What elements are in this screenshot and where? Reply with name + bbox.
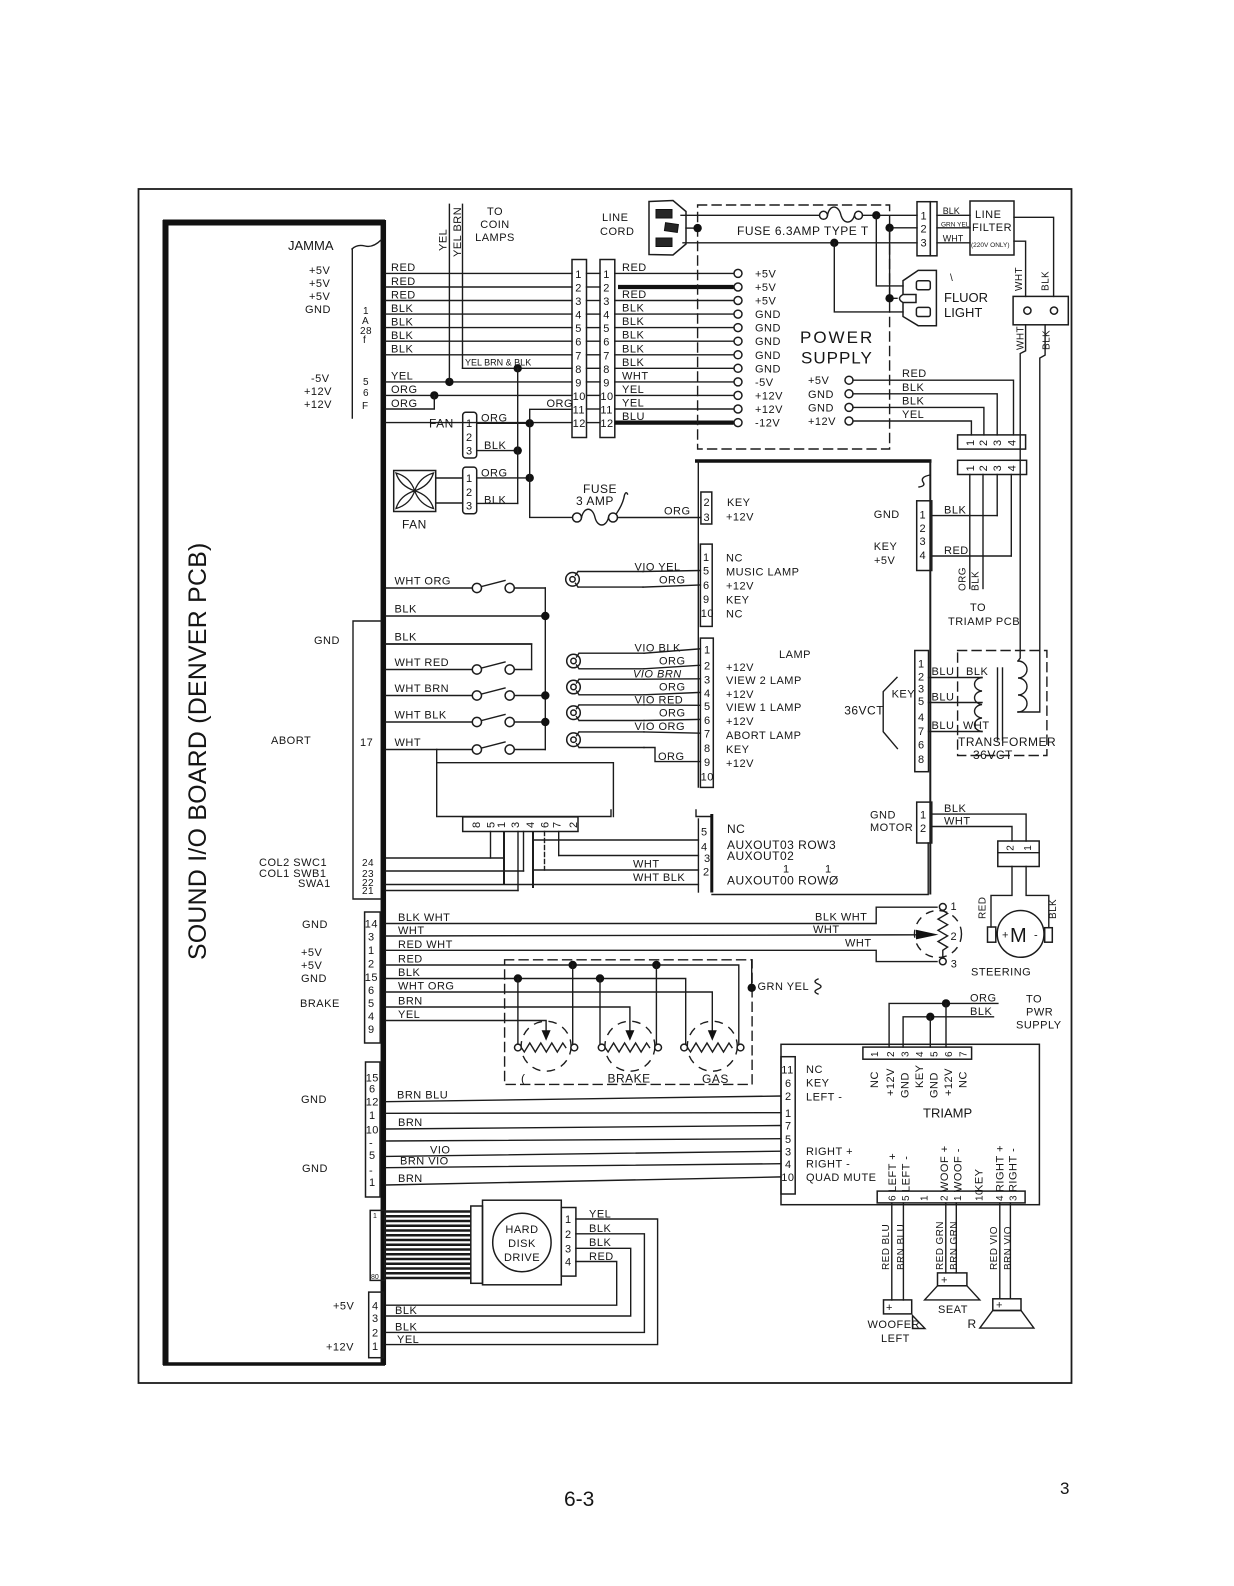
wire fanA pin3	[477, 450, 518, 452]
switch WHT BRN	[472, 691, 481, 700]
svg-text:BLK: BLK	[395, 632, 417, 644]
svg-text:NC: NC	[806, 1064, 823, 1076]
svg-text:+5V: +5V	[755, 282, 777, 294]
svg-text:GND: GND	[870, 810, 896, 822]
svg-text:LEFT -: LEFT -	[900, 1156, 912, 1192]
brake/gas dashed box	[505, 960, 752, 1085]
svg-text:+5V: +5V	[755, 268, 777, 280]
svg-text:8: 8	[471, 821, 483, 828]
wire VIO BLK to pin1	[644, 649, 700, 653]
wire pin3 WHT	[937, 242, 970, 244]
wire audio nc	[386, 1112, 781, 1115]
svg-text:9: 9	[703, 594, 710, 606]
connector HDD power 4-pin	[561, 1208, 576, 1277]
svg-text:2: 2	[372, 1328, 379, 1340]
wire audio BRN	[386, 1126, 781, 1130]
fuse 6.3AMP F1	[820, 211, 828, 219]
svg-text:FLUOR: FLUOR	[944, 290, 988, 305]
wire RED branch pot2	[655, 965, 657, 1044]
svg-text:+5V: +5V	[309, 265, 331, 277]
svg-text:4: 4	[1006, 439, 1018, 446]
svg-text:YEL: YEL	[397, 1334, 419, 1346]
switch WHT RED	[472, 665, 481, 674]
svg-text:M: M	[1010, 925, 1027, 947]
svg-text:RED: RED	[902, 368, 927, 380]
svg-text:WHT: WHT	[622, 370, 649, 382]
svg-text:VIO BLK: VIO BLK	[635, 643, 681, 655]
svg-text:LAMP: LAMP	[779, 649, 811, 661]
wire vertical from row8 junction	[517, 368, 519, 503]
svg-text:4: 4	[701, 842, 708, 854]
power supply dashed box	[698, 205, 890, 449]
svg-text:VIEW 1 LAMP: VIEW 1 LAMP	[726, 702, 802, 714]
connector P GND/KEY/+5V	[917, 501, 932, 571]
svg-text:1: 1	[870, 1051, 881, 1057]
svg-text:5: 5	[603, 323, 610, 335]
wire plug middle prong	[686, 227, 698, 229]
svg-text:3: 3	[992, 465, 1004, 472]
svg-text:GND: GND	[302, 919, 328, 931]
svg-text:2: 2	[568, 821, 580, 828]
svg-text:2: 2	[575, 283, 582, 295]
wire BLK branch pot2	[599, 979, 601, 1045]
connector GND/MOTOR	[917, 802, 932, 843]
speaker SEAT	[938, 1273, 967, 1286]
svg-text:1: 1	[369, 1110, 376, 1122]
svg-text:KEY: KEY	[974, 1168, 986, 1192]
svg-text:7: 7	[918, 726, 925, 738]
svg-text:VIEW 2 LAMP: VIEW 2 LAMP	[726, 675, 802, 687]
wire JAMMA row 1	[386, 272, 572, 274]
svg-text:ORG: ORG	[391, 398, 418, 410]
svg-text:1: 1	[965, 465, 977, 472]
wire line filter BLK to terminal	[1014, 217, 1054, 296]
lamp assembly view1	[567, 680, 581, 694]
svg-text:3: 3	[921, 238, 928, 250]
svg-text:QUAD MUTE: QUAD MUTE	[806, 1172, 877, 1184]
svg-text:2: 2	[565, 1229, 572, 1241]
switch WHT BLK	[472, 717, 481, 726]
svg-text:SWA1: SWA1	[298, 878, 331, 890]
wire audio BRN BLU	[386, 1096, 781, 1102]
svg-text:24: 24	[362, 858, 374, 869]
svg-text:7: 7	[785, 1121, 792, 1133]
svg-text:ABORT LAMP: ABORT LAMP	[726, 730, 802, 742]
wire BLK row3 to WHT RED switch	[386, 644, 532, 670]
wire row 8 YEL BRN & BLK	[463, 367, 573, 369]
svg-text:NC: NC	[869, 1071, 881, 1088]
connector 36VCT 8-pin	[915, 651, 929, 772]
svg-text:BRN BLU: BRN BLU	[397, 1090, 448, 1102]
wire BLK	[386, 979, 686, 1045]
svg-text:-12V: -12V	[755, 418, 780, 430]
wire pair RED VIO/BRN VIO	[999, 1203, 1001, 1299]
svg-text:2: 2	[368, 959, 375, 971]
svg-text:+12V: +12V	[726, 512, 754, 524]
svg-text:GND: GND	[808, 402, 834, 414]
junction	[526, 474, 534, 482]
wire +12V row 10	[386, 394, 572, 396]
svg-text:GND: GND	[755, 363, 781, 375]
junction BLK row	[541, 612, 549, 620]
svg-text:1: 1	[603, 269, 610, 281]
svg-text:KEY: KEY	[806, 1078, 830, 1090]
svg-text:LIGHT: LIGHT	[944, 305, 982, 320]
svg-text:10: 10	[600, 391, 613, 403]
svg-text:6: 6	[363, 388, 369, 399]
svg-text:f: f	[363, 335, 366, 346]
svg-text:RED VIO: RED VIO	[989, 1226, 1000, 1270]
svg-text:2: 2	[940, 1195, 951, 1201]
svg-text:RED GRN: RED GRN	[935, 1221, 946, 1270]
transformer primary coil	[1018, 661, 1027, 712]
svg-text:WHT: WHT	[1014, 267, 1025, 291]
svg-text:ORG: ORG	[664, 506, 691, 518]
transformer secondary coil	[975, 678, 982, 732]
wire lower conn pin2 BLK down	[982, 475, 984, 589]
wire JAMMA row 6	[386, 340, 572, 342]
wire header pin5 down	[490, 832, 492, 859]
svg-text:6: 6	[603, 337, 610, 349]
svg-text:AUXOUT02: AUXOUT02	[727, 849, 794, 863]
svg-text:FILTER: FILTER	[972, 222, 1012, 234]
svg-text:VIO BRN: VIO BRN	[633, 669, 682, 681]
svg-text:BLK: BLK	[944, 803, 966, 815]
svg-text:(220V ONLY): (220V ONLY)	[971, 242, 1010, 249]
svg-text:12: 12	[366, 1097, 379, 1109]
wire VIO ORG to pin7	[644, 732, 700, 733]
wire RED pin4	[932, 555, 1012, 557]
connector FAN B 3-pin	[463, 467, 477, 514]
svg-text:RED: RED	[398, 954, 423, 966]
svg-text:GND: GND	[305, 304, 331, 316]
brace 36VCT	[883, 677, 897, 748]
switch WHT	[472, 745, 481, 754]
svg-text:BLK: BLK	[391, 316, 413, 328]
bus squiggle mark	[919, 475, 930, 487]
svg-text:ORG: ORG	[547, 398, 574, 410]
wire main section top edge (thick)	[695, 459, 932, 463]
connector TRIAMP top header	[863, 1047, 972, 1059]
svg-text:+12V: +12V	[885, 1068, 897, 1096]
connector 4-pin upper	[958, 435, 1026, 449]
svg-text:3: 3	[901, 1051, 912, 1057]
svg-text:YEL: YEL	[398, 1009, 420, 1021]
svg-text:NC: NC	[726, 609, 743, 621]
wire ORG to pin2	[644, 665, 700, 669]
svg-text:MUSIC LAMP: MUSIC LAMP	[726, 567, 799, 579]
svg-text:ORG: ORG	[659, 656, 686, 668]
svg-text:1: 1	[496, 821, 508, 828]
wire switch row WHT	[386, 749, 472, 751]
wire switch row WHT ORG	[386, 587, 472, 589]
JAMMA bracket squiggle	[352, 240, 381, 249]
svg-text:BLU: BLU	[932, 666, 955, 678]
wire vertical YEL	[448, 204, 450, 382]
svg-text:36VCT: 36VCT	[844, 704, 884, 718]
svg-text:WHT: WHT	[395, 737, 422, 749]
wire pin2 GRN YEL	[937, 227, 970, 229]
svg-text:5: 5	[918, 696, 925, 708]
wire pair RED BLU/BRN BLU	[891, 1203, 893, 1300]
svg-text:YEL: YEL	[391, 371, 413, 383]
svg-text:BLK: BLK	[622, 357, 644, 369]
wire ORG to pin6	[644, 719, 700, 720]
svg-text:6: 6	[888, 1195, 899, 1201]
wire ORG to pin6	[643, 585, 700, 587]
svg-text:WOOF -: WOOF -	[952, 1148, 964, 1192]
svg-text:1: 1	[951, 901, 958, 913]
svg-text:TO: TO	[1026, 994, 1042, 1006]
svg-text:BLK: BLK	[971, 571, 982, 591]
svg-text:+12V: +12V	[304, 386, 332, 398]
wire COL1 SWB1 pin23	[386, 870, 524, 872]
lamp assembly abort	[567, 706, 581, 720]
svg-text:1: 1	[372, 1341, 379, 1353]
svg-text:6: 6	[944, 1051, 955, 1057]
wire switch row WHT BRN	[386, 695, 472, 697]
connector box power 4-pin	[369, 1292, 384, 1358]
svg-text:2: 2	[978, 465, 990, 472]
svg-text:3: 3	[510, 821, 522, 828]
svg-text:7: 7	[704, 729, 711, 741]
svg-text:BLK: BLK	[970, 1006, 992, 1018]
connector J1 12-pin	[572, 260, 587, 438]
wire BLU WHT pin7	[929, 731, 983, 733]
svg-text:11: 11	[781, 1064, 793, 1076]
svg-text:+: +	[996, 1300, 1003, 1312]
svg-text:-5V: -5V	[755, 377, 774, 389]
wire ORG to pin4	[644, 692, 700, 694]
svg-text:3: 3	[1008, 1195, 1019, 1201]
svg-text:ORG: ORG	[658, 751, 685, 763]
connector KEY/+12V 2-pin	[701, 492, 712, 524]
svg-text:6: 6	[575, 337, 582, 349]
svg-text:6: 6	[704, 715, 711, 727]
wire fuse to KEY connector	[618, 517, 701, 519]
svg-text:YEL BRN & BLK: YEL BRN & BLK	[465, 357, 531, 367]
svg-text:RIGHT +: RIGHT +	[806, 1146, 853, 1158]
svg-text:LINE: LINE	[975, 209, 1001, 221]
wire SWA1 pin22 to AUXOUT (thick)	[386, 884, 698, 886]
svg-text:BLU: BLU	[932, 692, 955, 704]
svg-text:TRANSFORMER: TRANSFORMER	[958, 735, 1056, 749]
svg-text:ORG: ORG	[659, 575, 686, 587]
svg-text:11: 11	[573, 405, 585, 417]
svg-text:3: 3	[704, 853, 711, 865]
junction	[526, 419, 534, 427]
svg-text:BLK: BLK	[391, 330, 413, 342]
svg-text:9: 9	[603, 377, 610, 389]
ribbon end bar	[471, 1206, 483, 1283]
svg-text:5: 5	[930, 1051, 941, 1057]
svg-text:RIGHT -: RIGHT -	[806, 1159, 850, 1171]
svg-text:5: 5	[363, 377, 369, 388]
wire pin21	[386, 890, 518, 892]
wire header pin6 down	[544, 832, 546, 871]
svg-text:+12V: +12V	[726, 662, 754, 674]
connector FAN A 3-pin	[463, 412, 477, 458]
wire +12V row 11 stub	[386, 395, 434, 409]
svg-text:12: 12	[600, 418, 613, 430]
wire header top rail	[438, 810, 611, 817]
wire BLK terminal down to transformer	[1018, 325, 1045, 712]
svg-text:5: 5	[369, 1150, 376, 1162]
svg-text:KEY: KEY	[727, 497, 751, 509]
wire RED	[386, 965, 739, 1044]
svg-text:RED: RED	[622, 262, 647, 274]
svg-text:BLK WHT: BLK WHT	[398, 912, 450, 924]
svg-text:9: 9	[368, 1024, 375, 1036]
svg-text:BLK: BLK	[589, 1223, 611, 1235]
svg-text:10: 10	[701, 608, 714, 620]
svg-text:2: 2	[466, 432, 473, 444]
wire ORG to pin9 (stepped)	[644, 748, 700, 762]
svg-text:(: (	[521, 1072, 526, 1086]
fluor prong top	[916, 281, 930, 290]
svg-text:SEAT: SEAT	[938, 1304, 968, 1316]
svg-text:+12V: +12V	[943, 1068, 955, 1096]
wire main vertical bus	[929, 461, 931, 895]
svg-text:1: 1	[918, 659, 925, 671]
svg-text:3: 3	[785, 1146, 792, 1158]
terminal block mains	[1013, 296, 1068, 324]
svg-text:\: \	[950, 273, 953, 284]
wire BLK triamp power	[903, 1017, 993, 1047]
svg-text:GND: GND	[755, 323, 781, 335]
svg-text:GND: GND	[808, 389, 834, 401]
wire BLK pin1	[932, 515, 997, 517]
svg-text:WHT RED: WHT RED	[395, 657, 450, 669]
svg-text:GND: GND	[301, 973, 327, 985]
svg-text:FAN: FAN	[429, 417, 454, 431]
wire switch row WHT RED	[386, 669, 472, 671]
svg-text:10: 10	[366, 1124, 379, 1136]
svg-text:WHT: WHT	[813, 924, 840, 936]
transformer dashed box	[958, 651, 1047, 756]
svg-text:7: 7	[959, 1051, 970, 1057]
svg-text:BLK: BLK	[1041, 271, 1052, 291]
wire lower conn pin4 to RED	[1010, 475, 1012, 557]
svg-text:KEY: KEY	[892, 688, 916, 700]
wire bottom node to fluor bottom	[834, 243, 903, 312]
connector audio 9-pin	[366, 1062, 381, 1197]
junction WHT BLK	[541, 718, 549, 726]
svg-text:10: 10	[573, 391, 586, 403]
svg-text:ORG: ORG	[958, 567, 969, 591]
svg-text:BLK: BLK	[391, 303, 413, 315]
svg-text:LEFT: LEFT	[881, 1333, 910, 1345]
svg-text:10: 10	[781, 1172, 794, 1184]
svg-text:4: 4	[920, 550, 927, 562]
svg-text:3: 3	[565, 1244, 572, 1256]
svg-text:+5V: +5V	[301, 947, 323, 959]
svg-text:1: 1	[953, 1195, 964, 1201]
wire JAMMA row 12	[386, 422, 572, 424]
svg-text:6-3: 6-3	[564, 1488, 594, 1511]
svg-text:4: 4	[525, 821, 537, 828]
svg-text:WHT ORG: WHT ORG	[395, 576, 451, 588]
svg-text:+12V: +12V	[755, 404, 783, 416]
wire fanA pin1	[477, 422, 530, 424]
svg-text:4: 4	[704, 688, 711, 700]
wire -5V row 9	[386, 381, 572, 383]
connector 4-pin lower	[958, 460, 1027, 474]
svg-text:GND: GND	[755, 336, 781, 348]
wire header pin3 down	[523, 832, 525, 872]
svg-text:3: 3	[575, 296, 582, 308]
svg-text:+5V: +5V	[309, 291, 331, 303]
svg-text:CORD: CORD	[600, 226, 634, 238]
potentiometer steering	[915, 911, 962, 958]
svg-text:TRIAMP PCB: TRIAMP PCB	[948, 616, 1020, 628]
svg-text:1: 1	[466, 473, 473, 485]
wire switch output bus	[544, 588, 546, 750]
svg-text:BRN GRN: BRN GRN	[949, 1221, 960, 1270]
svg-text:6: 6	[918, 739, 925, 751]
svg-text:1: 1	[368, 945, 375, 957]
wire WHT motor	[932, 827, 1012, 842]
svg-text:3: 3	[466, 501, 473, 513]
svg-text:RIGHT -: RIGHT -	[1008, 1148, 1020, 1192]
svg-text:2: 2	[920, 823, 927, 835]
svg-text:3: 3	[466, 446, 473, 458]
svg-text:3: 3	[372, 1313, 379, 1325]
svg-text:BRN: BRN	[398, 1117, 423, 1129]
svg-text:WHT: WHT	[944, 816, 971, 828]
svg-text:3: 3	[704, 512, 711, 524]
svg-text:BLU: BLU	[622, 411, 645, 423]
svg-text:RED: RED	[589, 1251, 614, 1263]
svg-text:+12V: +12V	[304, 399, 332, 411]
wire line filter WHT to terminal	[1014, 241, 1026, 296]
svg-text:1: 1	[785, 1108, 792, 1120]
svg-text:BRN: BRN	[398, 996, 423, 1008]
svg-text:BRN VIO: BRN VIO	[400, 1156, 449, 1168]
svg-text:GND: GND	[314, 635, 340, 647]
svg-text:GND: GND	[301, 1094, 327, 1106]
svg-text:SOUND I/O BOARD (DENVER PCB): SOUND I/O BOARD (DENVER PCB)	[185, 542, 212, 960]
svg-text:5: 5	[703, 566, 710, 578]
potentiometer GAS	[687, 1021, 737, 1071]
fuse 3 AMP	[573, 513, 582, 522]
junction fuse output	[863, 214, 918, 216]
lamp assembly music	[566, 573, 580, 587]
svg-text:5: 5	[701, 827, 708, 839]
svg-text:3: 3	[992, 439, 1004, 446]
wire fuse node to fluor top	[876, 215, 903, 286]
fan symbol	[394, 471, 436, 512]
svg-text:WHT BLK: WHT BLK	[633, 872, 685, 884]
svg-text:TRIAMP: TRIAMP	[923, 1106, 972, 1121]
wire JAMMA row 7	[386, 354, 572, 356]
wire WHT steering wiper with arrow	[386, 935, 925, 936]
motor M steering	[997, 911, 1044, 958]
potentiometer aux	[521, 1021, 571, 1071]
svg-text:GND: GND	[874, 509, 900, 521]
wire WHT abort branch	[437, 750, 614, 817]
junction row 8	[514, 364, 522, 372]
potentiometer BRAKE	[605, 1021, 655, 1071]
svg-text:VIO: VIO	[430, 1144, 450, 1156]
svg-text:LAMPS: LAMPS	[475, 232, 515, 244]
connector motor inline 2-pin	[998, 841, 1039, 867]
svg-text:6: 6	[703, 580, 710, 592]
connector J2 12-pin	[600, 260, 615, 438]
svg-text:BLK: BLK	[902, 382, 924, 394]
wire BRN to brake wiper	[386, 1007, 630, 1030]
svg-text:+12V: +12V	[326, 1342, 354, 1354]
